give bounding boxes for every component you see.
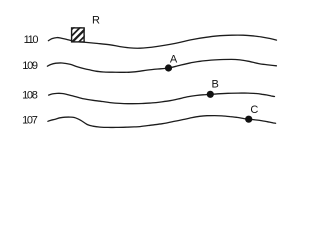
point B xyxy=(207,91,214,98)
svg-text:107: 107 xyxy=(22,115,38,127)
contour line 108 xyxy=(49,93,275,104)
point C xyxy=(245,116,252,123)
svg-text:A: A xyxy=(170,53,178,65)
svg-text:108: 108 xyxy=(22,89,38,101)
hatched square R (building) xyxy=(53,22,104,48)
point A xyxy=(165,64,172,71)
contour line 109 xyxy=(47,59,276,72)
contour line 107 xyxy=(48,116,276,128)
svg-text:110: 110 xyxy=(24,34,39,46)
svg-text:C: C xyxy=(250,104,258,116)
svg-text:109: 109 xyxy=(22,60,38,72)
svg-text:B: B xyxy=(212,79,219,91)
svg-text:R: R xyxy=(92,15,100,27)
contour line 110 xyxy=(48,35,276,48)
